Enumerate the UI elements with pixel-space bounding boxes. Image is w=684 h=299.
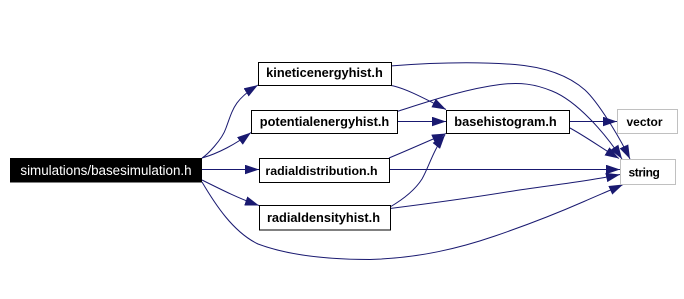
svg-text:simulations/basesimulation.h: simulations/basesimulation.h <box>20 163 191 178</box>
svg-text:string: string <box>629 166 660 180</box>
svg-text:basehistogram.h: basehistogram.h <box>454 114 557 129</box>
svg-text:kineticenergyhist.h: kineticenergyhist.h <box>266 65 383 80</box>
svg-text:radialdistribution.h: radialdistribution.h <box>265 164 377 178</box>
svg-text:potentialenergyhist.h: potentialenergyhist.h <box>260 114 390 129</box>
svg-text:vector: vector <box>626 115 662 129</box>
svg-text:radialdensityhist.h: radialdensityhist.h <box>267 210 380 225</box>
